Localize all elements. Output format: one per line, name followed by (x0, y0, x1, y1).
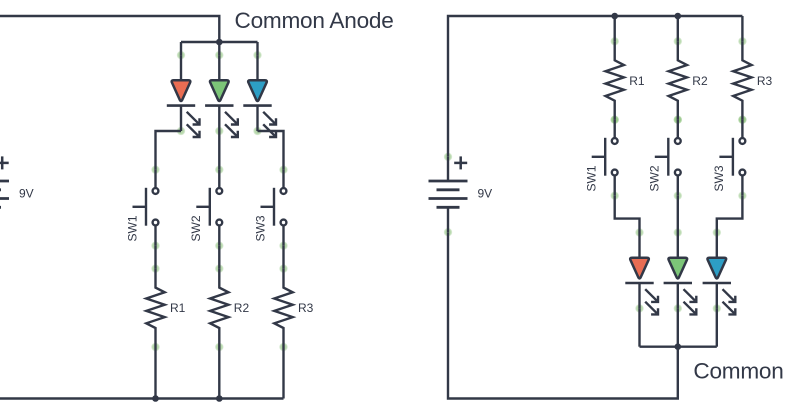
svg-text:Common: Common (693, 359, 783, 384)
wire D1 cathode to SW1 (156, 131, 182, 170)
svg-text:R1: R1 (629, 74, 645, 88)
switch SW3 (left) pin 2 (279, 241, 288, 250)
wire R3 to ground rail (282, 347, 284, 399)
svg-text:Common Anode: Common Anode (235, 8, 394, 33)
wire rail to R2 (right) (677, 16, 679, 41)
wire rail to LED2 (218, 42, 220, 55)
LED D2 (right) anode pin (673, 228, 682, 237)
switch SW1 (left) pin 2 (151, 241, 160, 250)
battery B2 9V (right) - pin (444, 228, 453, 237)
svg-text:9V: 9V (478, 186, 493, 200)
battery B1 9V (left, clipped) (0, 156, 9, 232)
switch SW1 (left) (133, 170, 159, 246)
switch SW3 (right) pin 2 (738, 191, 747, 200)
svg-text:R3: R3 (757, 74, 773, 88)
wire SW1 to R1 (154, 246, 156, 269)
LED D2 (left) anode pin (215, 51, 224, 60)
svg-text:R2: R2 (692, 74, 708, 88)
LED D3 (left) anode pin (253, 51, 262, 60)
switch SW1 (left) pin 1 (151, 165, 160, 174)
resistor R3 (right) pin 1 (738, 37, 747, 46)
wire R1 to ground rail (154, 347, 156, 399)
LED D3 (left) (243, 55, 276, 137)
wire D3 to cathode bar (716, 308, 718, 346)
battery B2 9V (right) + pin (444, 152, 453, 161)
svg-text:SW3: SW3 (253, 215, 267, 241)
wire rail to LED1 (180, 42, 182, 55)
resistor R3 (left) (274, 269, 292, 347)
switch SW1 (right) (592, 120, 618, 196)
resistor R1 (right) (606, 41, 624, 119)
junction common cathode (675, 343, 682, 350)
wire common cathode bar (640, 346, 717, 348)
wire D2 cathode to SW2 (218, 131, 220, 170)
svg-text:9V: 9V (19, 186, 34, 200)
LED D2 (left) cathode pin (215, 127, 224, 136)
resistor R2 (left) pin 1 (215, 264, 224, 273)
LED D3 (right) (703, 233, 736, 315)
resistor R2 (right) pin 2 (673, 115, 682, 124)
junction bottom rail R2 (216, 395, 223, 402)
LED D1 (right) cathode pin (635, 304, 644, 313)
LED D3 (right) cathode pin (712, 304, 721, 313)
svg-text:SW1: SW1 (125, 215, 139, 241)
svg-text:R2: R2 (234, 301, 250, 315)
resistor R2 (left) (210, 269, 228, 347)
LED D1 (right) (625, 233, 658, 315)
LED D2 (right) cathode pin (673, 304, 682, 313)
resistor R2 (left) pin 2 (215, 343, 224, 352)
wire SW2 to D2 (right) (677, 196, 679, 233)
LED D1 (left) anode pin (177, 51, 186, 60)
switch SW3 (right) (719, 120, 745, 196)
wire rail to R1 (right) (614, 16, 616, 41)
LED D1 (right) anode pin (635, 228, 644, 237)
wire SW3 to D3 (right) (717, 196, 743, 233)
LED D1 (left) (167, 55, 200, 137)
svg-text:SW2: SW2 (648, 165, 662, 191)
resistor R3 (right) pin 2 (738, 115, 747, 124)
resistor R1 (right) pin 1 (610, 37, 619, 46)
switch SW2 (right) (655, 120, 681, 196)
svg-text:SW3: SW3 (712, 165, 726, 191)
wire rail to R3 (right) (741, 16, 743, 41)
wire R2 to ground rail (218, 347, 220, 399)
LED D3 (left) cathode pin (253, 127, 262, 136)
wire SW3 to R3 (282, 246, 284, 269)
junction anode rail (216, 39, 223, 46)
wire anode rail (181, 41, 258, 43)
switch SW1 (right) pin 2 (610, 191, 619, 200)
switch SW3 (left) (261, 170, 287, 246)
wire battery+ to top rail (448, 16, 742, 157)
resistor R2 (right) pin 1 (673, 37, 682, 46)
wire D2 to cathode bar (677, 308, 679, 346)
wire rail to LED3 (256, 42, 258, 55)
LED D2 (left) (205, 55, 238, 137)
wire battery+ to anode junction (0, 16, 219, 157)
LED D3 (right) anode pin (712, 228, 721, 237)
LED D2 (right) (664, 233, 697, 315)
resistor R3 (left) pin 2 (279, 343, 288, 352)
wire SW2 to R2 (218, 246, 220, 269)
wire D3 cathode to SW3 (258, 131, 284, 170)
switch SW2 (right) pin 2 (673, 191, 682, 200)
resistor R1 (left) (146, 269, 164, 347)
switch SW2 (left) (196, 170, 222, 246)
LED D1 (left) cathode pin (177, 127, 186, 136)
resistor R3 (right) (733, 41, 751, 119)
junction bottom rail R1 (152, 395, 159, 402)
resistor R3 (left) pin 1 (279, 264, 288, 273)
switch SW2 (left) pin 1 (215, 165, 224, 174)
wire common return to battery- (448, 232, 678, 398)
svg-text:SW2: SW2 (189, 215, 203, 241)
resistor R1 (left) pin 1 (151, 264, 160, 273)
resistor R2 (right) (669, 41, 687, 119)
svg-text:SW1: SW1 (585, 165, 599, 191)
wire bottom return rail (left) (0, 232, 284, 398)
svg-text:R1: R1 (170, 301, 186, 315)
switch SW3 (left) pin 1 (279, 165, 288, 174)
switch SW2 (left) pin 2 (215, 241, 224, 250)
switch SW2 (right) pin 1 (673, 115, 682, 124)
resistor R1 (left) pin 2 (151, 343, 160, 352)
junction top rail R2 (675, 13, 682, 20)
switch SW1 (right) pin 1 (610, 115, 619, 124)
wire SW1 to D1 (right) (615, 196, 640, 233)
switch SW3 (right) pin 1 (738, 115, 747, 124)
wire D1 to cathode bar (638, 308, 640, 346)
junction top rail R1 (611, 13, 618, 20)
battery B2 9V (right) (429, 156, 468, 232)
svg-text:R3: R3 (298, 301, 314, 315)
resistor R1 (right) pin 2 (610, 115, 619, 124)
